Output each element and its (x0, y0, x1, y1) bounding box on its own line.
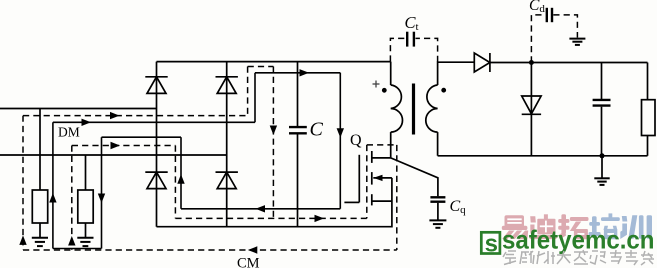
resistor R1 (LISN) (32, 190, 47, 223)
watermark char tuo (558, 214, 588, 239)
arrow CM G right (111, 142, 121, 149)
wire output cap bottom lead (601, 107, 603, 156)
wire DM loop vertical S9 (101, 137, 103, 248)
wire CM dashed horizontal B (23, 115, 248, 117)
wire DM loop bottom horizontal S10 (53, 248, 102, 250)
wire DM loop return horizontal S6 (181, 208, 340, 210)
svg-text:CM: CM (237, 256, 260, 268)
node output ground dot (600, 153, 605, 158)
wire load top lead (647, 63, 649, 100)
wire Cd dashed right leg (553, 15, 577, 38)
svg-text:s: s (485, 231, 498, 258)
wire CM dashed vertical E (272, 67, 274, 219)
wire diode D5 to node and right (490, 62, 648, 64)
ground Cd (569, 39, 585, 45)
watermark char pei (589, 213, 620, 239)
capacitor Cd (547, 8, 552, 22)
watermark gray slogan (503, 250, 654, 265)
mosfet Q1 source stub (372, 200, 392, 202)
polarity + sign (373, 81, 380, 88)
mosfet Q1 drain stub (372, 157, 391, 159)
mosfet Q1 channel segment bottom (371, 194, 373, 205)
capacitor Ct (407, 32, 414, 47)
wire secondary top lead (438, 62, 475, 156)
wire load bottom lead (647, 136, 649, 156)
diode D2 top-right (216, 77, 238, 94)
svg-text:Cq: Cq (450, 198, 467, 216)
wire DM loop vertical S7 (180, 137, 182, 209)
arrow DM S9 down (98, 194, 105, 204)
mosfet Q1 gate lead (344, 201, 359, 203)
capacitor Cq (430, 197, 445, 201)
ground R2 (77, 238, 93, 246)
transformer core bar (412, 84, 415, 135)
solid DM noise loop (53, 73, 340, 249)
mosfet Q1 channel segment middle (371, 172, 373, 185)
diode D5 output series (474, 53, 490, 72)
wire CM dashed vertical A (left LISN) (22, 116, 24, 250)
wire DM loop horizontal S8 (102, 136, 182, 138)
svg-text:C: C (310, 119, 324, 141)
wire DM loop top horizontal S2 (53, 121, 255, 123)
svg-text:Ct: Ct (405, 13, 419, 33)
wire bridge right leg (226, 62, 228, 227)
wire DM loop riser S3 (254, 73, 256, 123)
wire bottom input line (0, 154, 227, 156)
transformer T1 primary winding (391, 85, 403, 132)
wire CM dashed vertical J through Q (366, 145, 368, 219)
wire freewheel branch (530, 63, 532, 156)
wire CM dashed top K over Q (367, 144, 397, 146)
polarity dot secondary (441, 88, 446, 93)
wire R2 feed (85, 155, 87, 190)
watermark char yi (502, 215, 528, 239)
arrow CM A up (19, 235, 26, 245)
wire Ct dashed right leg (416, 38, 438, 62)
wire CM dashed top D (248, 66, 274, 68)
wire R2 to ground (85, 223, 87, 238)
dashed CM noise paths (23, 15, 577, 250)
wire CM dashed bottom rail M (23, 249, 397, 251)
polarity dot primary (382, 88, 387, 93)
wire R1 to ground (39, 223, 41, 238)
wire capacitor C top lead (297, 62, 299, 126)
transformer T1 secondary winding (426, 85, 438, 132)
diode D4 bottom-right (216, 172, 238, 189)
wire output bottom rail (438, 155, 648, 157)
wire output cap lead (601, 63, 603, 100)
wire CM dashed horizontal I (175, 217, 366, 219)
watermark char xun (620, 215, 652, 239)
wire DM loop left vertical S1 (52, 122, 54, 248)
node output dot (529, 60, 534, 65)
mosfet Q1 body arrow (373, 175, 392, 181)
wire DM loop upper horizontal S4 (255, 72, 340, 74)
svg-text:DM: DM (58, 124, 80, 139)
wire bridge top rail to transformer (157, 61, 391, 63)
wire secondary to diode D5 (473, 62, 475, 64)
arrow CM F up (68, 236, 75, 246)
wire top input line (0, 108, 157, 110)
watermark char di (529, 214, 557, 239)
watermark logo (481, 213, 654, 265)
wire CM dashed riser Cseg (247, 67, 249, 116)
arrow DM S4 right (300, 69, 310, 76)
svg-text:Cd: Cd (529, 0, 545, 15)
wire Q source to bottom rail (391, 178, 393, 228)
wire primary bottom lead to Q drain (390, 132, 392, 158)
arrow CM E down (270, 126, 277, 136)
mosfet Q1 channel segment top (371, 151, 373, 163)
wire CM dashed vertical F (right LISN) (71, 146, 73, 250)
arrow CM M left (248, 246, 257, 253)
wire Ct dashed left leg (390, 38, 405, 61)
capacitor C (289, 127, 307, 133)
wire capacitor C bottom lead (297, 134, 299, 226)
arrow CM I right (315, 215, 325, 222)
wire drain diagonal to Cq (391, 158, 438, 196)
resistor Rload (642, 100, 656, 136)
ground R1 (32, 238, 48, 246)
arrow CM B right (110, 112, 120, 119)
wire output ground stub (601, 156, 603, 178)
svg-text:Q: Q (350, 132, 362, 149)
diode D1 top-left (145, 77, 167, 94)
diode D6 freewheel (522, 96, 541, 114)
ground output (594, 178, 609, 185)
diode D3 bottom-left (145, 172, 167, 189)
wire bridge bottom rail (157, 226, 393, 228)
wire transformer primary top lead (390, 62, 392, 85)
arrow DM S5 down (337, 128, 344, 138)
arrow DM S1 up (49, 193, 56, 203)
wire DM loop drain-side vertical S5 (339, 73, 341, 209)
resistor R2 (LISN) (78, 190, 93, 223)
watermark s-box logo (481, 231, 500, 258)
wire CM dashed horizontal G (72, 145, 176, 147)
mosfet Q1 gate bar (358, 155, 360, 203)
wire Cd dashed left leg (531, 15, 545, 63)
wire bridge left leg (156, 62, 158, 227)
wire CM dashed vertical L right of Q (396, 145, 398, 250)
wire R1 feed (39, 109, 41, 191)
arrow DM S2 right (82, 119, 92, 126)
capacitor Cout (593, 100, 611, 106)
wire CM dashed vertical H (174, 146, 176, 219)
arrow DM S7 up (177, 174, 184, 184)
arrow DM S6 left (256, 205, 266, 212)
ground Cq (429, 220, 446, 227)
wire Cq to ground (437, 203, 439, 220)
